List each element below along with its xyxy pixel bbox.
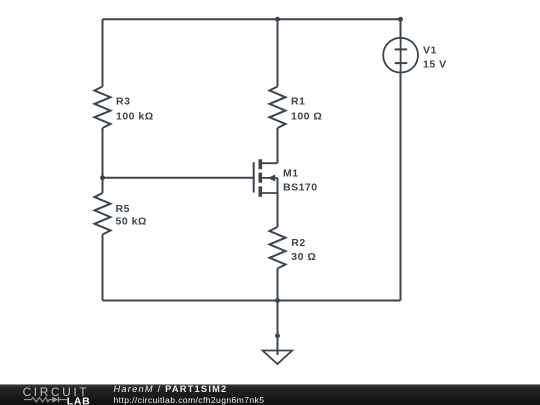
svg-text:BS170: BS170	[283, 181, 318, 193]
logo resistor-diode squiggle	[24, 397, 67, 402]
junction dot top right	[398, 17, 403, 22]
svg-text:V1: V1	[423, 45, 437, 57]
footer black bar	[0, 384, 540, 405]
wire ground lead	[277, 301, 279, 356]
svg-text:15 V: 15 V	[423, 58, 447, 70]
svg-text:100 kΩ: 100 kΩ	[116, 110, 154, 122]
wire top rail	[103, 18, 401, 20]
svg-text:R3: R3	[116, 96, 130, 108]
resistor R5	[95, 193, 111, 235]
svg-text:R5: R5	[116, 203, 130, 215]
svg-text:30 Ω: 30 Ω	[291, 251, 316, 263]
wire source lead	[277, 178, 279, 227]
svg-text:100 Ω: 100 Ω	[291, 110, 322, 122]
ground	[263, 351, 293, 365]
wire left rail middle segment	[102, 128, 104, 193]
wire middle rail upper segment	[277, 19, 279, 86]
CircuitLab logo	[0, 384, 100, 405]
transistor M1 symbol	[254, 159, 278, 197]
svg-text:R2: R2	[291, 237, 305, 249]
wire right rail	[400, 19, 402, 300]
wire below R2	[277, 269, 279, 301]
svg-text:R1: R1	[291, 96, 305, 108]
junction dot bottom middle	[275, 298, 280, 303]
wire gate lead	[103, 177, 254, 179]
logo diode triangle	[52, 397, 58, 403]
voltage source V1 symbol	[383, 38, 418, 73]
junction dot ground node	[275, 333, 280, 338]
wire left rail lower segment	[102, 235, 104, 301]
wire left rail upper segment	[102, 19, 104, 86]
svg-text:LAB: LAB	[67, 395, 91, 405]
credit text	[114, 385, 265, 404]
resistor R1	[270, 87, 286, 129]
junction dot gate-left rail	[100, 175, 105, 180]
svg-text:M1: M1	[283, 168, 299, 180]
resistor R3	[95, 87, 111, 129]
wire drain lead	[277, 128, 279, 163]
wire bottom rail	[103, 300, 401, 302]
svg-text:50 kΩ: 50 kΩ	[116, 215, 147, 227]
resistor R2	[270, 227, 286, 269]
junction dot top middle	[275, 17, 280, 22]
